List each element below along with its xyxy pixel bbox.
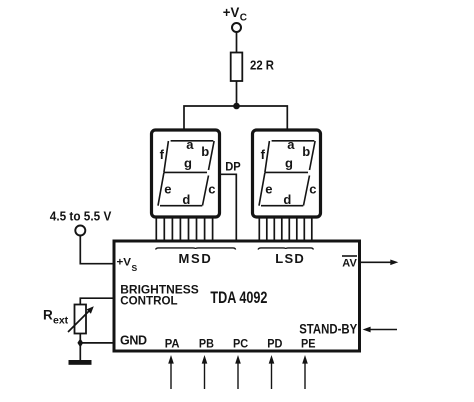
potentiometer Rext arrow xyxy=(68,306,94,332)
pin +Vs xyxy=(117,257,138,274)
svg-text:PD: PD xyxy=(267,336,283,350)
label Rext xyxy=(43,308,69,327)
wire brightness control xyxy=(80,298,114,304)
input arrows PA-PE xyxy=(171,363,305,389)
pin labels PA PB PC PD PE xyxy=(165,336,316,350)
svg-text:C: C xyxy=(240,13,247,24)
wire Vs input xyxy=(80,236,114,264)
wire Vc to R1 xyxy=(236,32,238,53)
svg-text:PA: PA xyxy=(165,336,180,350)
svg-text:S: S xyxy=(132,263,138,273)
bracket LSD xyxy=(258,248,313,250)
svg-text:22 R: 22 R xyxy=(250,59,274,73)
svg-text:PC: PC xyxy=(233,336,249,350)
wire DP xyxy=(220,174,237,240)
display LSD body xyxy=(253,130,321,217)
svg-text:R: R xyxy=(43,308,53,323)
wire to ground xyxy=(79,343,81,360)
svg-text:LSD: LSD xyxy=(275,251,304,266)
svg-text:ext: ext xyxy=(53,315,69,327)
svg-text:PB: PB xyxy=(199,336,214,350)
svg-text:CONTROL: CONTROL xyxy=(120,294,177,308)
svg-text:+V: +V xyxy=(117,257,132,269)
junction dot xyxy=(233,103,240,110)
wire STAND-BY input arrow xyxy=(363,327,397,333)
terminal 4.5 to 5.5V xyxy=(75,226,85,236)
svg-text:d: d xyxy=(182,192,190,207)
IC U1 TDA 4092 body xyxy=(114,241,360,351)
svg-text:STAND-BY: STAND-BY xyxy=(299,321,358,337)
junction dot xyxy=(77,338,83,347)
display LSD segment letters xyxy=(261,137,317,207)
potentiometer Rext body xyxy=(75,305,87,334)
svg-text:DP: DP xyxy=(225,162,241,174)
display MSD body xyxy=(152,130,220,217)
display MSD segments xyxy=(158,141,214,206)
terminal +Vc xyxy=(232,23,241,32)
svg-text:+V: +V xyxy=(223,4,240,20)
svg-text:f: f xyxy=(261,147,266,162)
resistor R1 22R xyxy=(231,53,243,82)
display LSD segments xyxy=(259,141,315,206)
svg-text:e: e xyxy=(164,182,171,197)
svg-text:g: g xyxy=(184,155,192,170)
svg-text:d: d xyxy=(283,192,291,207)
wire to GND pin xyxy=(80,342,114,344)
svg-text:4.5 to 5.5 V: 4.5 to 5.5 V xyxy=(50,210,112,224)
svg-text:PE: PE xyxy=(301,336,316,350)
svg-text:b: b xyxy=(201,144,209,159)
wire Rext to junction xyxy=(79,334,81,343)
svg-text:g: g xyxy=(285,155,293,170)
svg-text:b: b xyxy=(302,144,310,159)
svg-text:MSD: MSD xyxy=(179,251,211,266)
svg-text:e: e xyxy=(265,182,272,197)
svg-text:c: c xyxy=(208,182,215,197)
wire AV output arrow xyxy=(361,260,398,266)
wire anode bus xyxy=(184,106,287,129)
svg-text:GND: GND xyxy=(120,333,147,347)
label BRIGHTNESS CONTROL xyxy=(120,283,198,308)
svg-text:TDA 4092: TDA 4092 xyxy=(210,289,267,307)
svg-text:f: f xyxy=(160,147,165,162)
wire R1 to bus xyxy=(236,81,238,106)
svg-text:a: a xyxy=(287,137,295,152)
node +Vc label xyxy=(223,4,247,24)
svg-text:AV: AV xyxy=(342,257,357,269)
ground xyxy=(69,360,92,365)
svg-text:a: a xyxy=(186,137,194,152)
bracket MSD xyxy=(156,248,236,250)
svg-text:c: c xyxy=(309,182,316,197)
pins MSD xyxy=(156,217,212,240)
display MSD segment letters xyxy=(160,137,216,207)
pins LSD xyxy=(259,217,312,240)
pin AV (overline) xyxy=(342,256,357,269)
